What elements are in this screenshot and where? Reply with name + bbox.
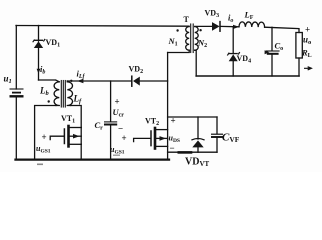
svg-text:N2: N2: [197, 38, 207, 50]
svg-text:ib: ib: [40, 64, 45, 76]
svg-text:Co: Co: [275, 41, 284, 53]
dot polarity Lb bottom: [48, 100, 50, 102]
svg-text:iLf: iLf: [77, 69, 86, 81]
transistor VT1: [50, 126, 81, 146]
svg-text:−: −: [170, 143, 175, 153]
svg-text:VD1: VD1: [46, 38, 61, 49]
svg-text:VD4: VD4: [237, 54, 252, 65]
diode VD2: [132, 76, 168, 86]
diode VD3: [212, 22, 220, 32]
capacitor Cr: [104, 81, 117, 160]
diode VDVT: [192, 117, 204, 152]
svg-text:VT1: VT1: [61, 114, 75, 125]
svg-text:VT2: VT2: [145, 117, 159, 128]
svg-text:Lb: Lb: [39, 86, 50, 98]
wire VT2 drain vertical from N1 bottom to bottom rail: [167, 53, 169, 160]
arrow current iLf: [77, 79, 83, 83]
svg-text:Ucr: Ucr: [113, 107, 125, 119]
svg-text:+: +: [42, 132, 47, 142]
wire Lf top to VD2 and to VT2 drain node: [67, 80, 131, 82]
svg-text:LF: LF: [244, 10, 254, 22]
diode VD4: [227, 27, 241, 76]
inductor Lb winding: [54, 80, 59, 105]
core of coupled inductor: [61, 81, 65, 108]
resistor RL: [296, 33, 302, 77]
arrow output minus marker: [305, 67, 312, 70]
dot polarity Lf top: [70, 80, 72, 82]
svg-text:u1: u1: [4, 74, 12, 86]
wire snubber bottom thick segment: [179, 151, 191, 154]
stray scan smudge left: [37, 164, 43, 166]
dot polarity N2: [199, 29, 201, 31]
transformer T primary N1 winding: [186, 27, 190, 51]
svg-text:VD3: VD3: [205, 9, 220, 20]
wire Lb bottom to left drop: [35, 106, 56, 160]
capacitor CVF: [211, 117, 223, 152]
wire Lf bottom to VT1 drain: [71, 106, 82, 128]
wire VT1 source to bottom rail: [80, 144, 82, 159]
svg-text:CVF: CVF: [222, 132, 240, 145]
dot polarity N1: [176, 29, 178, 31]
wire LF to Co node and RL: [265, 27, 299, 32]
svg-text:Lf: Lf: [73, 94, 83, 106]
svg-text:T: T: [184, 15, 190, 24]
wire N2 top to VD3: [195, 25, 212, 27]
svg-text:−: −: [118, 124, 123, 134]
svg-text:uo: uo: [303, 35, 311, 47]
capacitor Co: [265, 27, 280, 76]
svg-text:uGS1: uGS1: [110, 145, 125, 156]
wire snubber bottom: [168, 151, 217, 153]
svg-text:+: +: [305, 25, 310, 35]
transformer T secondary N2 winding: [195, 27, 199, 51]
wire VD1 to Lb top: [39, 79, 56, 81]
wire left vertical upper (source top): [15, 26, 17, 90]
arrow current io: [233, 25, 239, 29]
svg-text:+: +: [122, 133, 127, 143]
wire VT1 drain-source vertical: [80, 128, 82, 145]
svg-text:io: io: [228, 13, 233, 25]
inductor Lf winding: [67, 81, 72, 106]
svg-text:uGS1: uGS1: [36, 144, 51, 155]
wire left vertical lower (source bottom): [15, 98, 17, 160]
svg-text:+: +: [115, 97, 120, 107]
transistor VT2: [134, 128, 168, 149]
wire top rail: [16, 25, 189, 28]
svg-text:N1: N1: [168, 36, 178, 48]
wire N1 bottom to VT2 drain: [168, 50, 190, 52]
source u1 battery: [10, 89, 24, 96]
arrow current ib: [37, 69, 41, 74]
svg-text:VDVT: VDVT: [185, 157, 210, 169]
diode VD1: [32, 26, 45, 81]
wire N2 bottom to output return: [195, 50, 197, 76]
inductor LF: [239, 22, 265, 27]
svg-text:RL: RL: [301, 48, 312, 60]
wire VD3 to LF: [221, 25, 239, 27]
svg-text:+: +: [171, 116, 176, 126]
wire output bottom rail: [196, 75, 299, 77]
transformer T core: [191, 24, 194, 53]
svg-text:Cr: Cr: [95, 120, 104, 132]
wire snubber top: [168, 116, 217, 118]
wire bottom rail: [16, 158, 170, 160]
stray scan smudge middle: [113, 155, 120, 156]
svg-text:VD2: VD2: [129, 65, 144, 76]
